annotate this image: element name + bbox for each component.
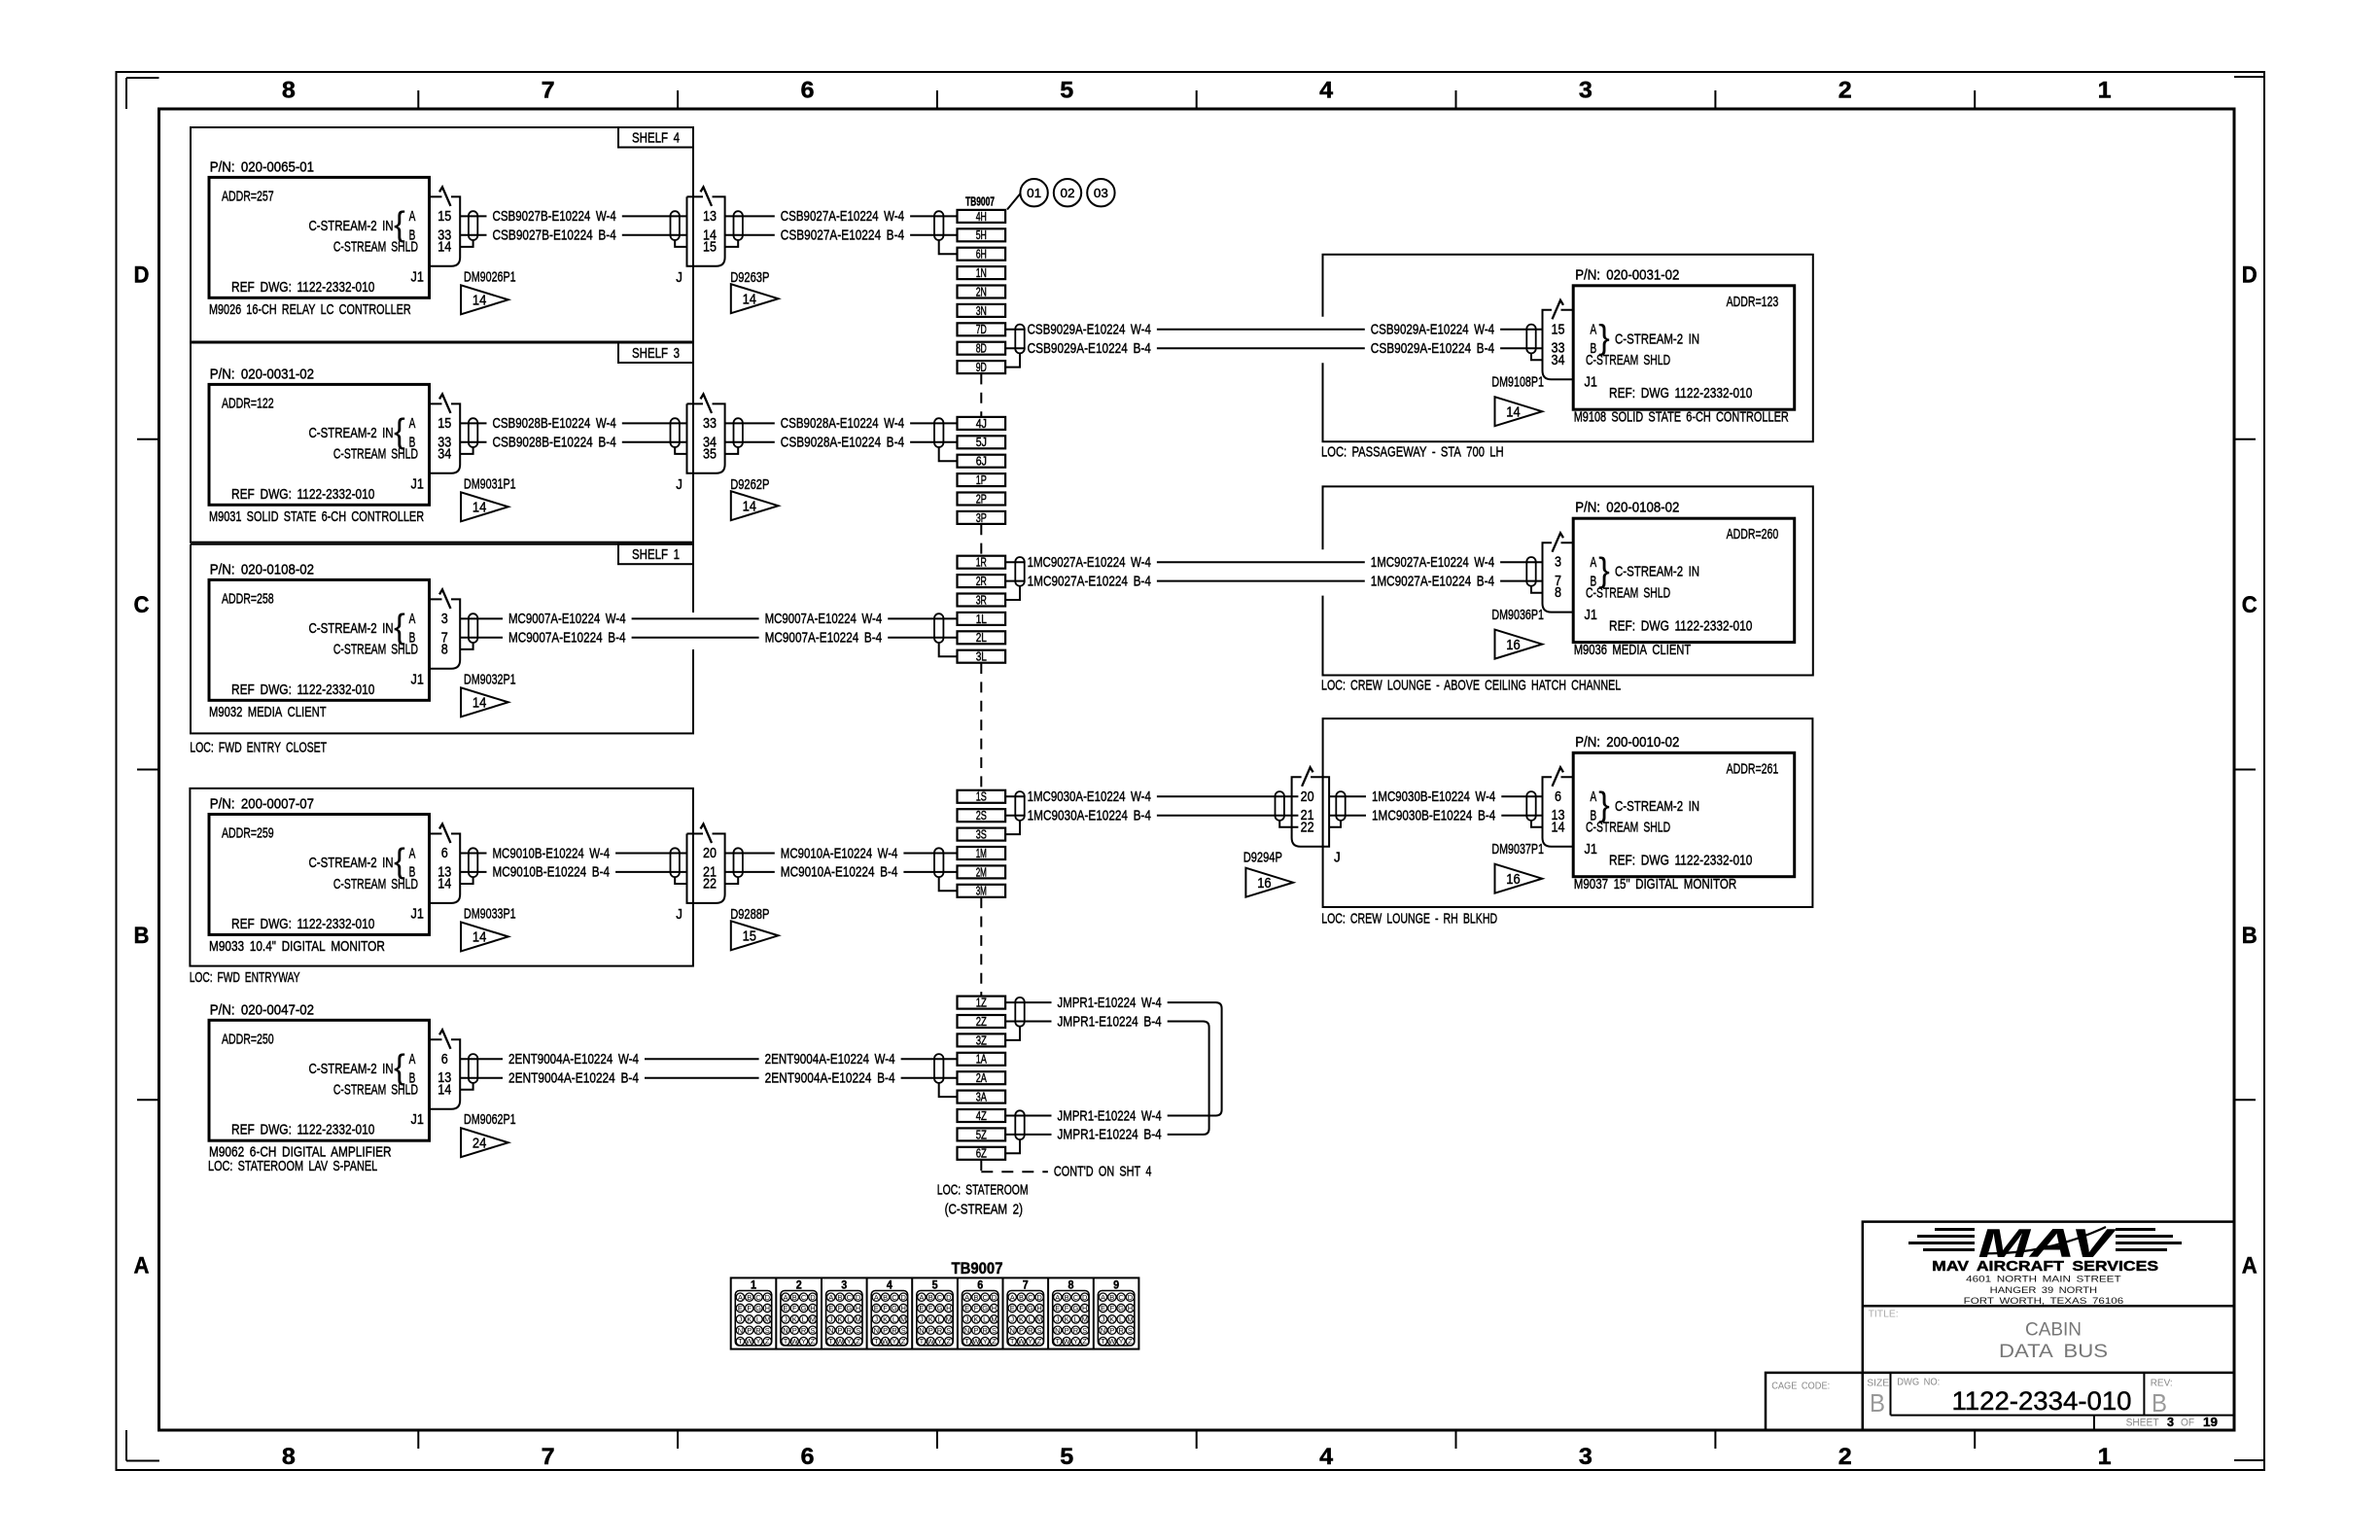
svg-text:J1: J1 — [411, 905, 424, 922]
svg-text:MC9007A-E10224 W-4: MC9007A-E10224 W-4 — [508, 611, 626, 627]
svg-text:C-STREAM SHLD: C-STREAM SHLD — [1586, 820, 1670, 836]
svg-text:CSB9027B-E10224 B-4: CSB9027B-E10224 B-4 — [493, 227, 616, 244]
svg-text:2N: 2N — [976, 285, 987, 298]
svg-text:L: L — [1119, 1315, 1123, 1324]
svg-text:34: 34 — [437, 445, 451, 462]
svg-text:S: S — [946, 1326, 951, 1335]
svg-text:A: A — [409, 1051, 416, 1067]
svg-text:CSB9029A-E10224 W-4: CSB9029A-E10224 W-4 — [1371, 322, 1494, 338]
svg-text:1MC9030A-E10224 W-4: 1MC9030A-E10224 W-4 — [1028, 788, 1151, 805]
svg-text:P: P — [1109, 1326, 1114, 1335]
svg-text:14: 14 — [472, 501, 486, 516]
svg-text:2A: 2A — [976, 1071, 988, 1085]
svg-text:B: B — [2242, 923, 2257, 949]
svg-text:}: } — [1598, 551, 1610, 589]
svg-text:F: F — [1110, 1304, 1115, 1312]
svg-text:M: M — [1082, 1315, 1088, 1324]
svg-text:ADDR=123: ADDR=123 — [1727, 294, 1779, 310]
svg-text:6: 6 — [801, 1444, 815, 1470]
svg-text:MC9010A-E10224 W-4: MC9010A-E10224 W-4 — [781, 845, 898, 861]
svg-text:L: L — [937, 1315, 941, 1324]
svg-text:2L: 2L — [976, 631, 987, 645]
title block — [1766, 1222, 2234, 1430]
terminal TB9007-3A — [958, 1091, 1006, 1104]
shield wire from 6Z — [1005, 1139, 1020, 1153]
svg-text:14: 14 — [743, 292, 756, 307]
shield wire from 3S — [1005, 821, 1020, 834]
svg-text:MC9007A-E10224 B-4: MC9007A-E10224 B-4 — [508, 630, 626, 647]
svg-text:J1: J1 — [411, 475, 424, 492]
svg-text:J1: J1 — [411, 268, 424, 285]
flag sheet 16 (D9294P) — [1245, 868, 1293, 897]
terminal TB9007-3L — [958, 650, 1006, 664]
svg-text:3R: 3R — [976, 593, 987, 607]
svg-text:}: } — [1598, 319, 1610, 357]
svg-text:T: T — [920, 1337, 925, 1346]
terminal block TB9007 module 2 — [776, 1277, 817, 1348]
svg-text:H: H — [810, 1304, 815, 1312]
svg-text:D9262P: D9262P — [730, 476, 769, 493]
pins 33/34/35 (D9262P) — [703, 415, 717, 463]
device M9033 - M9033 10.4" DIGITAL MONITOR — [209, 796, 430, 955]
svg-text:C: C — [892, 1293, 897, 1302]
twisted pair symbol at TB 1S/2S — [1005, 791, 1026, 821]
svg-text:J: J — [965, 1315, 969, 1324]
svg-text:C-STREAM-2 IN: C-STREAM-2 IN — [309, 855, 394, 871]
svg-text:G: G — [937, 1304, 943, 1312]
svg-text:4: 4 — [1319, 78, 1334, 104]
svg-text:3L: 3L — [976, 650, 987, 664]
terminal TB9007-3N — [958, 304, 1006, 318]
svg-text:D: D — [1082, 1293, 1088, 1302]
device M9036 - M9036 MEDIA CLIENT — [1573, 500, 1795, 658]
svg-text:8: 8 — [441, 641, 448, 657]
svg-text:LOC: STATEROOM LAV S-PANEL: LOC: STATEROOM LAV S-PANEL — [208, 1158, 377, 1174]
twisted pair symbol at DM9036P1 — [1526, 557, 1535, 586]
svg-text:Y: Y — [1028, 1337, 1032, 1346]
svg-text:N: N — [919, 1326, 924, 1335]
device M9026 - M9026 16-CH RELAY LC CONTROLLER — [209, 158, 430, 317]
svg-text:D9294P: D9294P — [1243, 850, 1282, 866]
svg-text:F: F — [747, 1304, 752, 1312]
twisted pair symbol at DM9033P1 — [469, 848, 477, 877]
terminal TB9007-1Z — [958, 997, 1006, 1010]
wire 1MC9027A-E10224 B-4 (to M9036) — [1028, 573, 1543, 589]
twisted pair symbol at DM9032P1 — [469, 613, 477, 643]
svg-text:B: B — [1870, 1388, 1885, 1417]
svg-text:2: 2 — [1838, 1444, 1852, 1470]
svg-text:03: 03 — [1094, 186, 1108, 200]
svg-text:1Z: 1Z — [976, 997, 987, 1010]
twisted pair symbol at DM9031P1 — [469, 418, 477, 447]
svg-text:MC9007A-E10224 W-4: MC9007A-E10224 W-4 — [765, 611, 883, 627]
svg-text:B: B — [1019, 1293, 1024, 1302]
svg-text:Z: Z — [992, 1337, 997, 1346]
MAV Aircraft Services logo — [1908, 1220, 2182, 1307]
svg-text:T: T — [1101, 1337, 1105, 1346]
svg-text:K: K — [837, 1315, 842, 1324]
flag sheet 14 (DM9026P1) — [461, 285, 508, 314]
device M9062 - M9062 6-CH DIGITAL AMPLIFIER — [208, 1001, 430, 1174]
svg-text:J: J — [676, 269, 682, 286]
terminal TB9007-2A — [958, 1071, 1006, 1085]
svg-text:N: N — [874, 1326, 879, 1335]
shelf enclosure SHELF 3 — [191, 343, 693, 542]
svg-text:JMPR1-E10224 B-4: JMPR1-E10224 B-4 — [1058, 1013, 1162, 1030]
svg-text:G: G — [892, 1304, 897, 1312]
jumper wire JMPR1-E10224 B-4 (2Z to 5Z) — [1058, 1013, 1209, 1142]
svg-text:A: A — [964, 1293, 969, 1302]
pins 6/13/14 (DM9033P1) — [437, 845, 451, 892]
svg-text:1S: 1S — [976, 790, 987, 804]
svg-text:G: G — [1028, 1304, 1033, 1312]
svg-text:B: B — [134, 923, 150, 949]
twisted pair symbol at DM9108P1 — [1526, 325, 1535, 354]
twisted pair symbols at D9288P — [671, 848, 743, 877]
twisted pair symbols at D9294P — [1276, 791, 1346, 821]
wire MC9010A-E10224 B-4 — [725, 864, 958, 881]
svg-text:6Z: 6Z — [976, 1147, 987, 1161]
terminal TB9007-1M — [958, 847, 1006, 860]
svg-text:REV:: REV: — [2151, 1377, 2173, 1388]
svg-text:MAV AIRCRAFT SERVICES: MAV AIRCRAFT SERVICES — [1932, 1259, 2158, 1275]
svg-text:M9026 16-CH RELAY LC CONTR: M9026 16-CH RELAY LC CONTROLLER — [209, 301, 411, 318]
svg-text:S: S — [1037, 1326, 1042, 1335]
terminal TB9007-1L — [958, 612, 1006, 626]
svg-text:J: J — [874, 1315, 878, 1324]
shelf enclosure SHELF 4 — [191, 127, 693, 342]
shield wire C-STREAM SHLD (DM9037P1 pin 14) — [1531, 821, 1543, 827]
svg-text:14: 14 — [437, 1081, 451, 1098]
svg-text:C-STREAM-2 IN: C-STREAM-2 IN — [309, 425, 394, 441]
svg-text:E: E — [964, 1304, 969, 1312]
svg-text:3Z: 3Z — [976, 1033, 987, 1047]
svg-text:TB9007: TB9007 — [952, 1260, 1003, 1277]
svg-text:SHEET: SHEET — [2126, 1417, 2159, 1429]
enclosure M9033 - FWD ENTRYWAY — [190, 788, 693, 986]
svg-text:4J: 4J — [976, 417, 987, 431]
svg-text:N: N — [964, 1326, 969, 1335]
terminal TB9007-6J — [958, 455, 1006, 469]
svg-text:3: 3 — [441, 611, 448, 627]
shield wire to 6H — [939, 240, 958, 254]
svg-text:L: L — [1029, 1315, 1032, 1324]
svg-text:DM9031P1: DM9031P1 — [464, 475, 516, 492]
svg-text:N: N — [1055, 1326, 1060, 1335]
terminal TB9007-4Z — [958, 1109, 1006, 1123]
pins 15/33/34 (DM9031P1) — [437, 415, 451, 463]
svg-text:M: M — [900, 1315, 906, 1324]
svg-text:Z: Z — [856, 1337, 860, 1346]
svg-text:A: A — [1010, 1293, 1015, 1302]
wire MC9010B-E10224 B-4 — [460, 864, 686, 881]
terminal TB9007-2N — [958, 285, 1006, 298]
svg-text:1L: 1L — [976, 612, 987, 626]
svg-text:D: D — [992, 1293, 997, 1302]
svg-text:P: P — [792, 1326, 797, 1335]
terminal TB9007-7D — [958, 323, 1006, 336]
twisted pair symbol at TB 1A/2A — [934, 1054, 943, 1083]
svg-text:01: 01 — [1027, 186, 1041, 200]
wire CSB9028A-E10224 W-4 — [725, 415, 958, 432]
svg-text:C-STREAM SHLD: C-STREAM SHLD — [1586, 352, 1670, 368]
device M9031 - M9031 SOLID STATE 6-CH CONTROLLER — [209, 366, 430, 524]
svg-text:SHELF 3: SHELF 3 — [632, 345, 680, 362]
svg-text:SIZE: SIZE — [1867, 1377, 1889, 1388]
terminal block TB9007 module 7 — [1003, 1277, 1044, 1348]
svg-text:REF: DWG 1122-2332-010: REF: DWG 1122-2332-010 — [1609, 853, 1752, 869]
svg-text:R: R — [801, 1326, 807, 1335]
svg-text:C-STREAM-2 IN: C-STREAM-2 IN — [309, 620, 394, 637]
svg-text:FORT WORTH, TEXAS 76106: FORT WORTH, TEXAS 76106 — [1964, 1296, 2124, 1307]
shield wire C-STREAM SHLD (DM9036P1 pin 8) — [1531, 586, 1543, 593]
svg-text:LOC: CREW LOUNGE - RH BLK: LOC: CREW LOUNGE - RH BLKHD — [1321, 910, 1497, 927]
svg-text:P/N: 200-0007-07: P/N: 200-0007-07 — [210, 796, 314, 813]
svg-text:C-STREAM SHLD: C-STREAM SHLD — [333, 642, 418, 658]
svg-text:5Z: 5Z — [976, 1128, 987, 1141]
enclosure M9036 - CREW LOUNGE ABOVE CEILING HATCH CHANNEL — [1321, 486, 1813, 693]
svg-text:J: J — [829, 1315, 833, 1324]
terminal TB9007-2Z — [958, 1015, 1006, 1029]
flag sheet 14 (DM9108P1) — [1495, 397, 1543, 426]
twisted pair symbol at TB 1M/2M — [934, 848, 943, 877]
shield wire C-STREAM SHLD (DM9032P1 pin 8) — [460, 643, 472, 649]
svg-text:N: N — [1101, 1326, 1105, 1335]
twisted pair symbol at TB 4H/5H — [934, 211, 943, 240]
svg-text:M: M — [855, 1315, 860, 1324]
shield wire C-STREAM SHLD (DM9031P1 pin 34) — [460, 447, 472, 454]
svg-text:REF DWG: 1122-2332-010: REF DWG: 1122-2332-010 — [231, 486, 374, 503]
svg-text:2Z: 2Z — [976, 1015, 987, 1029]
svg-text:1R: 1R — [976, 556, 987, 570]
svg-text:1MC9027A-E10224 B-4: 1MC9027A-E10224 B-4 — [1371, 573, 1494, 589]
shield wire C-STREAM SHLD (DM9033P1 pin 14) — [460, 877, 472, 884]
svg-text:C: C — [937, 1293, 943, 1302]
terminal TB9007-1R — [958, 556, 1006, 570]
svg-text:Z: Z — [901, 1337, 906, 1346]
svg-text:DM9036P1: DM9036P1 — [1491, 607, 1544, 623]
flag sheet 16 (DM9037P1) — [1495, 864, 1543, 893]
twisted pair symbol at TB 1R/2R — [1005, 557, 1026, 586]
svg-text:S: S — [1128, 1326, 1133, 1335]
svg-text:REF: DWG 1122-2332-010: REF: DWG 1122-2332-010 — [1609, 618, 1752, 635]
note LOC: STATEROOM (C-STREAM 2) — [937, 1181, 1029, 1217]
svg-text:W: W — [1018, 1337, 1026, 1346]
svg-text:R: R — [847, 1326, 853, 1335]
svg-text:K: K — [1019, 1315, 1024, 1324]
svg-text:P/N: 020-0031-02: P/N: 020-0031-02 — [210, 366, 314, 382]
svg-text:D: D — [946, 1293, 952, 1302]
svg-text:D: D — [2242, 262, 2257, 288]
svg-text:LOC: STATEROOM: LOC: STATEROOM — [937, 1181, 1029, 1198]
svg-text:J: J — [1010, 1315, 1014, 1324]
svg-text:ADDR=260: ADDR=260 — [1727, 526, 1779, 542]
svg-text:C: C — [1028, 1293, 1033, 1302]
connector J1 / DM9026P1 (plug) — [430, 187, 516, 285]
wire 1MC9030A-E10224 W-4 — [1028, 788, 1299, 805]
svg-text:E: E — [828, 1304, 833, 1312]
twisted pair symbols at D9262P — [671, 418, 743, 447]
svg-text:J1: J1 — [1585, 841, 1597, 857]
wire 2ENT9004A-E10224 B-4 — [460, 1070, 957, 1087]
svg-text:E: E — [1101, 1304, 1105, 1312]
svg-text:Z: Z — [765, 1337, 770, 1346]
connector J / D9263P (receptacle) — [676, 187, 769, 285]
svg-text:D: D — [1036, 1293, 1042, 1302]
wire MC9007A-E10224 B-4 — [460, 630, 957, 647]
terminal TB9007-2P — [958, 492, 1006, 506]
svg-text:F: F — [838, 1304, 843, 1312]
svg-text:14: 14 — [437, 238, 451, 255]
svg-text:P: P — [883, 1326, 888, 1335]
svg-text:C-STREAM SHLD: C-STREAM SHLD — [1586, 585, 1670, 602]
terminal TB9007-3S — [958, 828, 1006, 842]
svg-text:B: B — [747, 1293, 752, 1302]
svg-text:4601 NORTH MAIN STREET: 4601 NORTH MAIN STREET — [1966, 1275, 2121, 1285]
terminal block TB9007 module 5 — [912, 1277, 953, 1348]
svg-text:B: B — [792, 1293, 797, 1302]
svg-text:7: 7 — [542, 78, 555, 104]
svg-text:1P: 1P — [976, 473, 987, 487]
svg-text:G: G — [1118, 1304, 1124, 1312]
svg-text:Y: Y — [1119, 1337, 1124, 1346]
shield wire C-STREAM SHLD (DM9062P1 pin 14) — [460, 1083, 472, 1090]
twisted pair symbol at DM9026P1 — [469, 211, 477, 240]
svg-text:5: 5 — [1060, 78, 1073, 104]
flag sheet 15 (D9288P) — [731, 921, 779, 950]
svg-text:4Z: 4Z — [976, 1109, 987, 1123]
terminal TB9007-2M — [958, 865, 1006, 879]
shield wire to 3M — [939, 877, 958, 891]
wire CSB9027A-E10224 W-4 — [725, 208, 958, 225]
svg-text:J: J — [920, 1315, 924, 1324]
device M9108 - M9108 SOLID STATE 6-CH CONTROLLER — [1573, 266, 1795, 425]
svg-text:D: D — [900, 1293, 906, 1302]
svg-text:C: C — [1073, 1293, 1079, 1302]
wire 1MC9030A-E10224 B-4 — [1028, 808, 1299, 824]
svg-text:C-STREAM SHLD: C-STREAM SHLD — [333, 239, 418, 256]
svg-text:DWG NO:: DWG NO: — [1897, 1377, 1940, 1388]
svg-text:H: H — [946, 1304, 951, 1312]
twisted pair symbol at TB 4J/5J — [934, 418, 943, 447]
svg-text:T: T — [964, 1337, 969, 1346]
shield wire jogs (D9288P) — [675, 877, 738, 884]
svg-text:JMPR1-E10224 B-4: JMPR1-E10224 B-4 — [1058, 1127, 1162, 1143]
svg-text:B: B — [883, 1293, 888, 1302]
svg-text:E: E — [919, 1304, 924, 1312]
connector J1 / DM9032P1 (plug) — [430, 589, 516, 687]
connector J1 / DM9033P1 (plug) — [430, 824, 516, 923]
svg-text:SHELF 4: SHELF 4 — [632, 130, 680, 147]
svg-text:6H: 6H — [976, 248, 987, 262]
svg-text:CAGE CODE:: CAGE CODE: — [1771, 1381, 1830, 1392]
shield wire jogs (D9294P) — [1279, 821, 1341, 827]
svg-text:D: D — [1128, 1293, 1134, 1302]
svg-text:14: 14 — [472, 696, 486, 712]
svg-text:T: T — [738, 1337, 743, 1346]
svg-text:}: } — [1598, 786, 1610, 823]
svg-text:Y: Y — [1073, 1337, 1078, 1346]
wire number balloons 01 02 03 — [1007, 179, 1115, 210]
terminal TB9007-3M — [958, 885, 1006, 898]
svg-text:2R: 2R — [976, 575, 987, 588]
svg-text:L: L — [892, 1315, 896, 1324]
svg-text:D9288P: D9288P — [730, 906, 769, 923]
svg-text:R: R — [982, 1326, 988, 1335]
svg-text:C: C — [847, 1293, 853, 1302]
svg-text:G: G — [846, 1304, 852, 1312]
svg-text:R: R — [892, 1326, 897, 1335]
svg-text:L: L — [802, 1315, 806, 1324]
svg-text:{: { — [394, 205, 405, 243]
svg-text:K: K — [1109, 1315, 1114, 1324]
svg-text:OF: OF — [2181, 1417, 2194, 1429]
flag sheet 24 (DM9062P1) — [461, 1128, 508, 1157]
svg-text:E: E — [1055, 1304, 1060, 1312]
terminal block TB9007 module 6 — [958, 1277, 998, 1348]
svg-text:TB9007: TB9007 — [965, 194, 995, 208]
flag sheet 14 (D9262P) — [731, 491, 779, 520]
svg-text:B: B — [1065, 1293, 1069, 1302]
svg-text:A: A — [783, 1293, 787, 1302]
svg-text:R: R — [1118, 1326, 1124, 1335]
svg-text:22: 22 — [703, 876, 717, 892]
svg-text:DM9033P1: DM9033P1 — [464, 905, 516, 922]
svg-text:6: 6 — [441, 845, 448, 861]
svg-text:P/N: 020-0047-02: P/N: 020-0047-02 — [210, 1001, 314, 1018]
svg-text:{: { — [394, 842, 405, 880]
shield wire from 3Z — [1005, 1027, 1020, 1040]
svg-text:C-STREAM SHLD: C-STREAM SHLD — [333, 1082, 418, 1099]
svg-text:15: 15 — [437, 208, 451, 225]
svg-text:Y: Y — [847, 1337, 852, 1346]
svg-text:P: P — [837, 1326, 842, 1335]
svg-text:S: S — [856, 1326, 860, 1335]
wire CSB9027A-E10224 B-4 — [725, 227, 958, 244]
svg-text:3P: 3P — [976, 511, 987, 525]
svg-text:JMPR1-E10224 W-4: JMPR1-E10224 W-4 — [1058, 1107, 1162, 1124]
flag sheet 14 (D9263P) — [731, 284, 779, 313]
svg-text:J1: J1 — [1585, 374, 1597, 391]
pins 13/14/15 (D9263P) — [703, 208, 717, 256]
svg-text:B: B — [973, 1293, 978, 1302]
twisted pair symbol at TB 1L/2L — [934, 613, 943, 643]
svg-text:B: B — [928, 1293, 933, 1302]
pins 15/33/14 (DM9026P1) — [437, 208, 451, 256]
svg-text:M: M — [946, 1315, 952, 1324]
svg-text:D9263P: D9263P — [730, 269, 769, 286]
svg-text:W: W — [746, 1337, 753, 1346]
svg-text:N: N — [1009, 1326, 1014, 1335]
svg-text:6: 6 — [1555, 788, 1561, 805]
svg-text:G: G — [755, 1304, 761, 1312]
connector J / D9294P (receptacle) — [1243, 767, 1341, 865]
flag sheet 14 (DM9032P1) — [461, 687, 508, 717]
svg-text:8: 8 — [1555, 584, 1561, 601]
flag sheet 14 (DM9033P1) — [461, 922, 508, 951]
svg-text:C: C — [801, 1293, 807, 1302]
shield wire jogs (D9263P) — [675, 240, 738, 247]
terminal TB9007-3R — [958, 593, 1006, 607]
svg-text:A: A — [1055, 1293, 1060, 1302]
terminal TB9007-9D — [958, 361, 1006, 374]
terminal TB9007-4J — [958, 417, 1006, 431]
svg-text:L: L — [756, 1315, 760, 1324]
svg-text:J1: J1 — [1585, 607, 1597, 623]
svg-text:M9032 MEDIA CLIENT: M9032 MEDIA CLIENT — [209, 704, 327, 720]
svg-text:Y: Y — [892, 1337, 896, 1346]
svg-text:22: 22 — [1301, 819, 1314, 835]
